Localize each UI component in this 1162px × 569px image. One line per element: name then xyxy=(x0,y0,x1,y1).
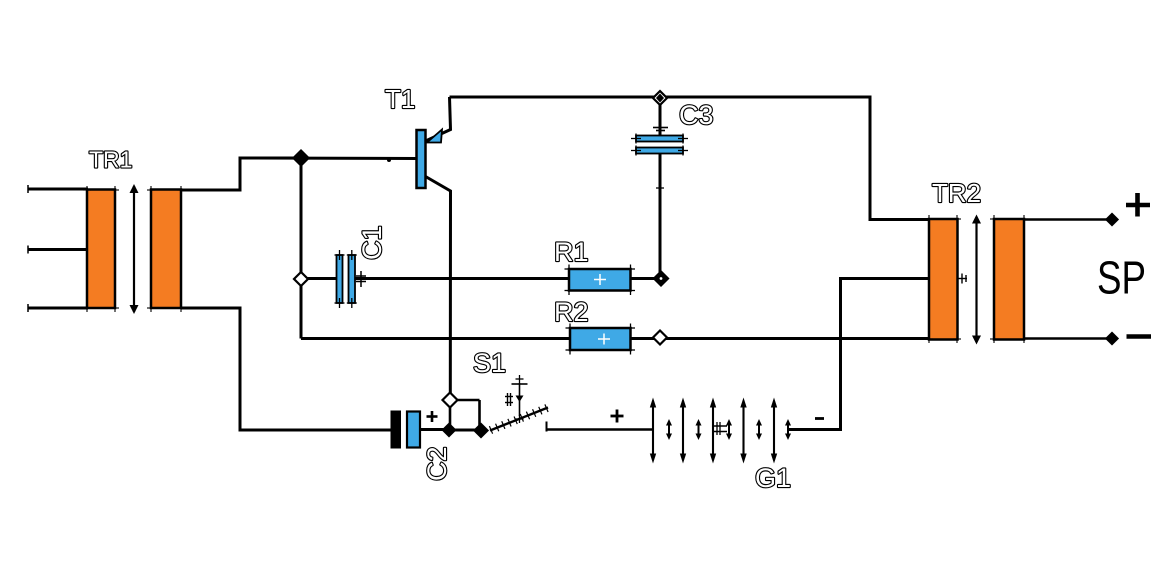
svg-text:C3: C3 xyxy=(679,100,714,130)
svg-text:S1: S1 xyxy=(473,348,506,378)
svg-text:R1: R1 xyxy=(554,237,589,267)
svg-text:SP: SP xyxy=(1097,252,1146,304)
svg-text:G1: G1 xyxy=(755,463,791,493)
svg-text:TR2: TR2 xyxy=(932,178,981,208)
svg-text:C2: C2 xyxy=(422,446,452,481)
svg-text:TR1: TR1 xyxy=(89,147,132,173)
svg-text:T1: T1 xyxy=(385,84,415,114)
svg-text:C1: C1 xyxy=(357,225,387,260)
svg-text:R2: R2 xyxy=(554,297,589,327)
